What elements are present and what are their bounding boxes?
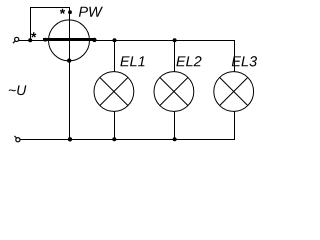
node: voltage-coil top terminal dot [68,10,72,14]
node: wattmeter branch junction on bottom bus [68,137,72,141]
node: voltage-coil bottom dot on circle edge [67,58,71,62]
wire: EL1 bottom drop [114,111,116,139]
wire: voltage-coil branch (left vertical + top horizontal) [31,8,71,41]
wire: wattmeter vertical (voltage coil axis down to bottom bus) [69,7,71,140]
wire: top bus [19,40,236,42]
terminal X2 (bottom supply clamp) [14,136,20,142]
terminal X1 (top supply clamp) [13,37,19,43]
label ~U (supply voltage) [9,85,27,95]
lamp EL2 [154,72,194,112]
wattmeter PW circle [49,20,90,61]
label PW [79,7,103,17]
wire: EL2 top drop [174,40,176,72]
wire: EL1 top drop [114,40,116,72]
polarity asterisk (voltage coil, at top branch) [60,9,65,14]
lamp EL3 [214,72,254,112]
label EL3 [232,56,257,66]
polarity asterisk (current coil, at top bus) [31,32,36,37]
label EL1 [120,56,144,66]
node: current-coil left end dot [43,38,47,42]
wire: bottom bus [20,139,236,141]
label EL2 [176,56,201,66]
wire: EL2 bottom drop [174,111,176,139]
node: EL2 top bus junction [173,38,177,42]
node: junction of voltage branch with top bus [28,38,32,42]
node: EL1 bottom bus junction [112,137,116,141]
node: EL2 bottom bus junction [173,137,177,141]
wattmeter current-coil thick bar [43,38,96,41]
wire: EL3 bottom drop (right corner of bottom bus) [234,111,236,139]
node: current-coil right end dot [92,38,96,42]
lamp EL1 [94,72,134,112]
wire: EL3 top drop (right corner of top bus) [234,40,236,72]
node: EL1 top bus junction [113,38,117,42]
